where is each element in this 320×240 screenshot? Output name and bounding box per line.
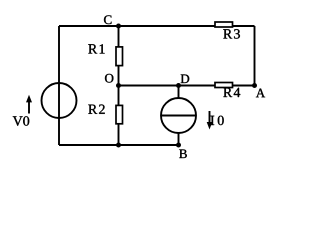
node label D bbox=[181, 75, 190, 84]
value label R3 bbox=[223, 29, 240, 38]
wire center vertical C-R1-O-R2 bbox=[118, 26, 120, 145]
node C junction dot bbox=[116, 24, 121, 29]
node label C bbox=[104, 15, 112, 24]
wire current source branch D to B bbox=[178, 86, 180, 146]
wire bottom to node B bbox=[59, 144, 179, 146]
value label R1 bbox=[88, 44, 104, 53]
arrow I0 direction (down) bbox=[207, 111, 213, 130]
node label O bbox=[105, 74, 113, 83]
value label I0 bbox=[211, 116, 224, 125]
value label R4 bbox=[223, 88, 240, 97]
resistor R2 bbox=[116, 105, 123, 123]
wire right vertical to node A bbox=[254, 26, 256, 86]
junction dot R2 bottom bbox=[116, 143, 121, 148]
node label A bbox=[256, 89, 265, 98]
wire middle horizontal O to A bbox=[119, 85, 255, 87]
voltage source V0 bbox=[42, 83, 77, 118]
arrow V0 polarity (up) bbox=[26, 95, 32, 114]
resistor R1 bbox=[116, 47, 123, 66]
node A junction dot bbox=[252, 83, 257, 88]
value label R2 bbox=[88, 105, 104, 114]
node O junction dot bbox=[116, 83, 121, 88]
resistor R3 bbox=[215, 22, 233, 27]
wire top rail C bbox=[59, 25, 255, 27]
node label B bbox=[179, 150, 187, 159]
value label V0 bbox=[13, 116, 29, 126]
resistor R4 bbox=[215, 83, 233, 88]
current source I0 bbox=[161, 98, 196, 133]
node D junction dot bbox=[176, 83, 181, 88]
wire left vertical through V0 bbox=[58, 26, 60, 145]
node B junction dot bbox=[176, 143, 181, 148]
